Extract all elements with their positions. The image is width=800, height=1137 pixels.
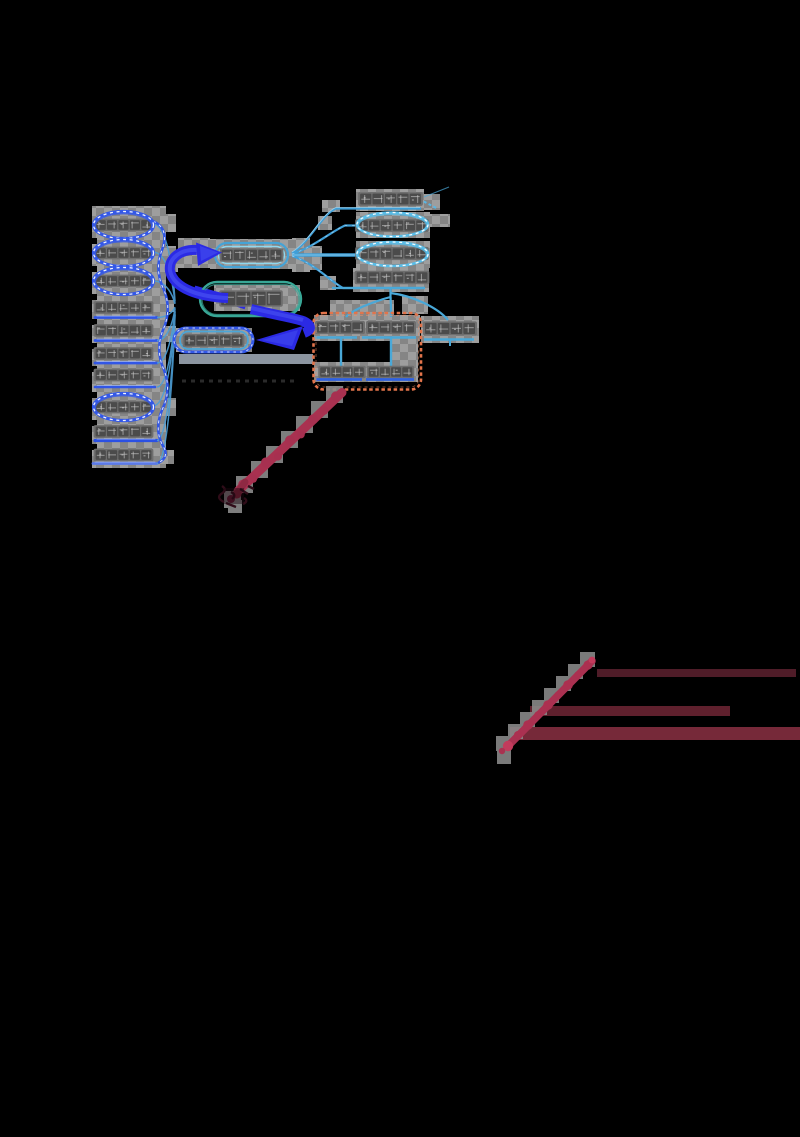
arrow A <box>170 243 228 299</box>
checker patch left column <box>92 206 176 468</box>
cell 成本酬金 <box>423 321 477 346</box>
vertical links <box>341 338 391 368</box>
branch underlines left items <box>93 316 157 463</box>
node R1 <box>358 192 423 206</box>
red marker stroke 2 <box>499 657 596 755</box>
red marker stroke 1 <box>219 391 342 507</box>
cell 固定单价 <box>314 321 365 338</box>
node 合同管理 (teal ring) <box>200 282 301 316</box>
arrow B tail under node <box>194 290 246 305</box>
checker patch right column <box>306 189 450 292</box>
gray dash row <box>182 380 294 383</box>
node 招标和投标 <box>215 243 288 267</box>
node L6 <box>94 347 154 360</box>
checker patch center <box>160 238 322 352</box>
cell 可调总价 <box>366 366 414 380</box>
fan lines root to right items <box>292 209 425 289</box>
red marker stroke 1 gray steps <box>224 386 343 513</box>
node L2 <box>94 240 154 267</box>
node 签订和履行 <box>174 328 253 352</box>
node L3 <box>94 268 154 295</box>
gray band <box>179 354 313 364</box>
arrow B <box>251 308 310 350</box>
red marker stroke 2 gray steps <box>496 652 595 764</box>
cell 可变单价 <box>362 321 416 338</box>
cell 固定总价 <box>316 366 366 380</box>
dashed tail after R1 <box>419 199 438 209</box>
sub fan lines <box>332 288 448 320</box>
long sketchy connector left <box>153 221 168 463</box>
node L8 <box>94 394 154 421</box>
branch curves to root <box>153 224 175 464</box>
node L7 <box>94 369 154 382</box>
node L9 <box>94 425 154 438</box>
checker patch pricing area <box>314 296 479 382</box>
node L10 <box>94 449 154 462</box>
node L5 <box>94 324 154 337</box>
orange dashed box <box>314 313 422 390</box>
node R3 <box>355 242 429 266</box>
node R2 <box>355 213 429 237</box>
node L4 <box>94 301 154 314</box>
red streak bands <box>510 669 800 740</box>
node L1 <box>94 212 154 239</box>
node R4 <box>355 271 430 284</box>
